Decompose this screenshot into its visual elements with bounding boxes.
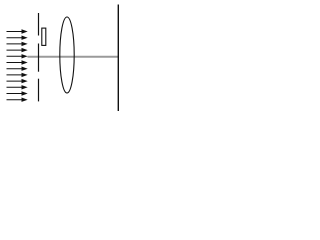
incident ray arrow 4 <box>7 48 28 52</box>
incident ray arrow 5 <box>7 54 28 58</box>
lens ellipse <box>60 17 74 93</box>
incident ray arrow 1 <box>7 29 28 33</box>
incident ray arrow 8 <box>7 73 28 77</box>
optical axis <box>28 56 119 58</box>
incident ray arrow 9 <box>7 79 28 83</box>
aperture plane dashed segment 3 <box>38 79 40 102</box>
incident ray arrow 12 <box>7 98 28 102</box>
incident ray arrow 11 <box>7 91 28 95</box>
incident ray arrow 3 <box>7 42 28 46</box>
incident ray arrow 10 <box>7 85 28 89</box>
screen line <box>117 5 119 112</box>
incident ray arrow 7 <box>7 67 28 71</box>
aperture plane dashed segment 1 <box>38 13 40 36</box>
aperture stop rectangle <box>42 28 46 45</box>
incident ray arrow 2 <box>7 36 28 40</box>
aperture plane dashed segment 2 <box>38 44 40 72</box>
incident ray arrow 6 <box>7 60 28 64</box>
